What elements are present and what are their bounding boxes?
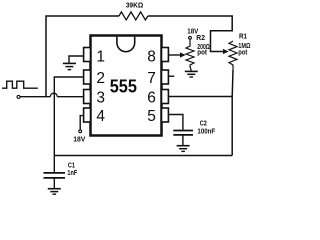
- wire bottom rail: [54, 155, 232, 157]
- pin 6: [147, 89, 168, 106]
- svg-text:2: 2: [96, 70, 105, 87]
- wire pin 2 down to bottom rail: [54, 77, 83, 156]
- svg-text:R1: R1: [239, 33, 247, 40]
- terminal 18V (R2): [189, 36, 192, 39]
- pin 5: [147, 108, 168, 125]
- pin 2: [84, 70, 105, 87]
- wire top-left segment: [46, 16, 119, 97]
- wire pin 7 stub: [168, 75, 174, 77]
- wire top-right segment: [148, 16, 232, 52]
- svg-text:7: 7: [147, 70, 156, 87]
- svg-text:555: 555: [110, 76, 137, 97]
- wire pin 5 to C2: [168, 115, 183, 130]
- pin 8: [147, 48, 168, 66]
- potentiometer R1 1MΩ: [223, 41, 237, 70]
- wire right rail: [231, 70, 234, 156]
- svg-text:4: 4: [96, 108, 105, 125]
- wire pin 3: [57, 96, 83, 98]
- ground (C1): [48, 189, 61, 195]
- waveform symbol (square wave): [2, 81, 38, 88]
- ground (pin 1): [63, 63, 76, 69]
- wire pin 4 to 18V terminal: [80, 116, 83, 130]
- wire pin 6 to right rail: [168, 96, 232, 98]
- wire pin 1 to ground: [69, 56, 84, 63]
- svg-text:pot: pot: [238, 49, 248, 56]
- svg-text:6: 6: [147, 89, 156, 106]
- svg-text:5: 5: [147, 108, 156, 125]
- svg-text:8: 8: [147, 48, 156, 65]
- ground (C2): [177, 146, 190, 152]
- svg-text:1: 1: [96, 48, 105, 65]
- svg-text:3: 3: [96, 89, 105, 106]
- svg-text:pot: pot: [197, 50, 207, 57]
- svg-text:C1: C1: [68, 163, 75, 170]
- ground (R2): [185, 67, 198, 78]
- svg-text:C2: C2: [200, 121, 207, 128]
- svg-text:18V: 18V: [73, 136, 86, 143]
- capacitor C1: [44, 156, 66, 189]
- pin 1: [84, 48, 105, 66]
- svg-text:39KΩ: 39KΩ: [126, 3, 144, 10]
- potentiometer R2 200Ω: [180, 40, 194, 67]
- IC U1 555 body: [91, 36, 162, 136]
- svg-text:R2: R2: [196, 35, 205, 42]
- pin 7: [147, 70, 168, 87]
- pin 4: [84, 108, 106, 125]
- svg-text:100nF: 100nF: [197, 129, 215, 136]
- terminal (output): [17, 95, 20, 98]
- wire pin 8 to R2 wiper: [168, 54, 181, 56]
- terminal 18V (pin 4): [79, 130, 82, 133]
- capacitor C2: [173, 131, 193, 146]
- svg-text:1nF: 1nF: [67, 170, 77, 177]
- resistor 39KΩ: [119, 12, 148, 20]
- wire output to hop: [20, 96, 50, 98]
- wire hop over pin-2 line: [50, 93, 57, 96]
- pin 3: [84, 89, 105, 106]
